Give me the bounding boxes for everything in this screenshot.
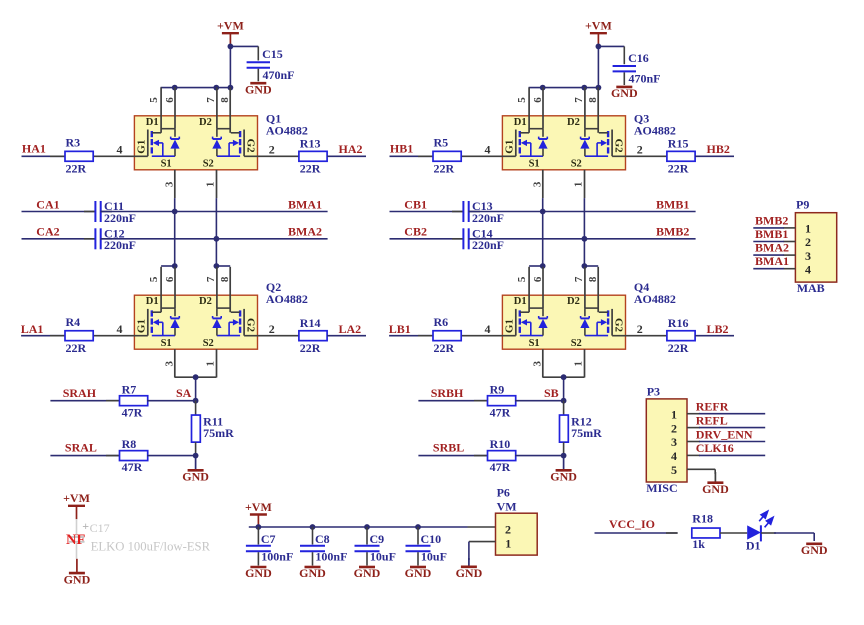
svg-text:10uF: 10uF	[370, 550, 396, 564]
wire to node SA	[147, 400, 196, 402]
transistor Q1 AO4882 dual MOSFET	[93, 87, 299, 198]
svg-text:2: 2	[269, 322, 275, 336]
svg-text:47R: 47R	[490, 460, 511, 474]
svg-text:SRAH: SRAH	[63, 386, 97, 400]
svg-text:GND: GND	[456, 566, 483, 580]
wire bus to P6 pin 2	[468, 526, 496, 528]
svg-text:47R: 47R	[122, 460, 143, 474]
svg-text:D2: D2	[567, 296, 580, 307]
svg-text:GND: GND	[245, 82, 272, 96]
svg-text:C16: C16	[628, 51, 649, 65]
svg-text:S1: S1	[161, 159, 172, 170]
svg-text:GND: GND	[801, 543, 828, 557]
junction tie 2	[214, 263, 220, 269]
svg-text:75mR: 75mR	[571, 426, 602, 440]
wire to LB2	[695, 335, 734, 337]
svg-text:GND: GND	[299, 566, 326, 580]
svg-text:2: 2	[637, 142, 643, 156]
svg-text:LB1: LB1	[389, 322, 411, 336]
svg-text:CLK16: CLK16	[696, 441, 734, 455]
wire R18 to D1	[720, 532, 747, 534]
svg-text:+VM: +VM	[585, 19, 612, 33]
svg-text:1: 1	[205, 361, 217, 367]
svg-text:REFR: REFR	[696, 400, 729, 414]
svg-text:5: 5	[148, 97, 160, 103]
resistor R10 47R	[474, 437, 516, 474]
junction drain bus 3	[228, 85, 234, 91]
wire source join	[175, 377, 217, 401]
svg-text:+VM: +VM	[217, 19, 244, 33]
svg-text:HA2: HA2	[339, 142, 363, 156]
wire BMA2 row	[101, 238, 328, 240]
svg-text:R8: R8	[122, 437, 137, 451]
junction tie 1	[540, 263, 546, 269]
svg-text:5: 5	[516, 97, 528, 103]
wire SRBL	[418, 455, 488, 457]
svg-text:MAB: MAB	[797, 281, 825, 295]
svg-text:G1: G1	[136, 140, 148, 154]
ground below C10	[405, 566, 432, 580]
power +VM (C17 branch)	[63, 491, 90, 519]
wire to HB2	[695, 155, 734, 157]
wire S1 output column	[542, 198, 544, 266]
svg-text:22R: 22R	[66, 341, 87, 355]
svg-text:C7: C7	[261, 532, 276, 546]
svg-text:G2: G2	[245, 139, 257, 154]
wire P3 pin 1 net REFR	[687, 413, 765, 415]
transistor Q2 AO4882 dual MOSFET	[93, 267, 299, 378]
svg-text:C15: C15	[262, 47, 283, 61]
junction node SA	[193, 398, 199, 404]
wire CA2 row	[22, 238, 96, 240]
svg-text:S2: S2	[571, 159, 582, 170]
svg-text:REFL: REFL	[696, 413, 728, 427]
svg-text:7: 7	[205, 97, 217, 103]
svg-text:R4: R4	[66, 315, 81, 329]
capacitor C8 100nF	[300, 527, 347, 566]
junction drain bus	[540, 85, 546, 91]
wire P6 pin 1 to ground	[469, 542, 496, 560]
svg-text:LA2: LA2	[339, 322, 362, 336]
wire S1 output column	[174, 198, 176, 266]
svg-text:220nF: 220nF	[104, 238, 136, 252]
svg-text:2: 2	[637, 322, 643, 336]
svg-text:100nF: 100nF	[261, 550, 293, 564]
svg-text:P3: P3	[647, 384, 660, 398]
capacitor C15 470nF	[247, 46, 295, 82]
svg-text:SB: SB	[544, 386, 559, 400]
junction ground node	[561, 453, 567, 459]
svg-text:4: 4	[485, 142, 491, 156]
wire SRAL	[50, 455, 120, 457]
wire P3 pin 4 net CLK16	[687, 454, 765, 456]
svg-text:8: 8	[587, 97, 599, 103]
wire to ground node	[515, 455, 564, 457]
transistor Q3 AO4882 dual MOSFET	[461, 87, 667, 198]
svg-text:G2: G2	[245, 318, 257, 333]
ground below C16	[611, 86, 638, 100]
svg-text:1: 1	[505, 537, 511, 551]
svg-text:R5: R5	[434, 135, 449, 149]
svg-text:AO4882: AO4882	[634, 292, 676, 306]
wire to ground node	[147, 455, 196, 457]
wire P3 pin 2 net REFL	[687, 427, 765, 429]
wire S2 output column	[215, 198, 217, 266]
svg-text:470nF: 470nF	[629, 72, 661, 86]
svg-text:47R: 47R	[122, 405, 143, 419]
svg-text:1: 1	[573, 182, 585, 188]
svg-text:1: 1	[205, 182, 217, 188]
connector P9 MAB	[795, 198, 836, 296]
junction bus tap C10	[415, 524, 421, 530]
capacitor C10 10uF	[406, 527, 447, 566]
svg-text:5: 5	[516, 276, 528, 282]
svg-text:8: 8	[219, 276, 231, 282]
svg-text:S2: S2	[203, 159, 214, 170]
svg-text:8: 8	[219, 97, 231, 103]
svg-text:HA1: HA1	[22, 142, 46, 156]
svg-text:D1: D1	[514, 117, 527, 128]
capacitor C17 ELKO 100uF/low-ESR (not fitted)	[69, 519, 211, 559]
capacitor C16 470nF	[613, 46, 661, 85]
junction S2-BMB2	[582, 236, 588, 242]
svg-text:BMA2: BMA2	[755, 241, 789, 255]
junction +VM node	[228, 44, 234, 50]
svg-text:+: +	[82, 519, 89, 533]
capacitor C13 220nF	[452, 199, 504, 225]
svg-text:S2: S2	[571, 338, 582, 349]
svg-text:HB1: HB1	[390, 142, 413, 156]
wire to HA2	[327, 155, 366, 157]
svg-text:5: 5	[671, 463, 677, 477]
svg-text:CB1: CB1	[404, 197, 427, 211]
svg-text:75mR: 75mR	[203, 426, 234, 440]
wire BMB2 row	[469, 238, 696, 240]
svg-text:SRBH: SRBH	[431, 386, 464, 400]
svg-text:22R: 22R	[668, 162, 689, 176]
ground after D1	[801, 543, 828, 557]
junction S1-BMA1	[172, 209, 178, 215]
wire CB1 row	[390, 211, 464, 213]
svg-text:S2: S2	[203, 338, 214, 349]
svg-text:CA1: CA1	[36, 197, 59, 211]
wire LA1	[21, 335, 65, 337]
ground below sense resistors	[182, 456, 209, 484]
svg-text:22R: 22R	[300, 162, 321, 176]
svg-text:22R: 22R	[434, 341, 455, 355]
svg-text:ELKO 100uF/low-ESR: ELKO 100uF/low-ESR	[91, 540, 211, 554]
junction bus tap C8	[310, 524, 316, 530]
svg-text:BMA2: BMA2	[288, 225, 322, 239]
svg-text:G1: G1	[136, 319, 148, 333]
resistor R13 22R	[299, 137, 327, 176]
wire +VM to cap C16	[598, 45, 624, 47]
wire source join	[543, 377, 585, 401]
svg-text:P6: P6	[497, 486, 510, 500]
resistor R7 47R	[106, 382, 148, 419]
resistor R16 22R	[667, 316, 695, 355]
svg-text:S1: S1	[529, 338, 540, 349]
svg-text:SRAL: SRAL	[65, 441, 97, 455]
svg-text:GND: GND	[64, 572, 91, 586]
svg-text:AO4882: AO4882	[634, 124, 676, 138]
resistor R3 22R	[50, 135, 93, 175]
ground below C17	[64, 559, 91, 587]
ground P3	[702, 472, 729, 496]
resistor R9 47R	[474, 382, 516, 419]
svg-text:HB2: HB2	[707, 142, 730, 156]
svg-text:SRBL: SRBL	[433, 441, 464, 455]
svg-text:G2: G2	[613, 318, 625, 333]
svg-text:BMB1: BMB1	[656, 197, 689, 211]
svg-text:+VM: +VM	[245, 500, 272, 514]
junction drain bus 2	[581, 85, 587, 91]
wire +VM to cap C15	[230, 45, 258, 47]
svg-text:C9: C9	[370, 532, 385, 546]
svg-text:BMA1: BMA1	[288, 197, 322, 211]
resistor R5 22R	[418, 135, 461, 175]
wire HA1	[22, 155, 66, 157]
svg-text:GND: GND	[611, 86, 638, 100]
svg-text:R7: R7	[122, 382, 137, 396]
svg-text:GND: GND	[405, 566, 432, 580]
svg-text:1k: 1k	[692, 537, 705, 551]
capacitor C12 220nF	[84, 227, 136, 253]
wire SRAH	[50, 400, 120, 402]
svg-text:NF: NF	[66, 532, 85, 548]
svg-text:VCC_IO: VCC_IO	[609, 517, 655, 531]
capacitor C9 10uF	[355, 527, 396, 566]
junction drain bus	[172, 85, 178, 91]
svg-text:6: 6	[532, 97, 544, 103]
svg-text:R16: R16	[668, 316, 689, 330]
junction tie 2	[582, 263, 588, 269]
ground P6	[456, 558, 483, 580]
resistor R15 22R	[667, 137, 695, 176]
ground below C7	[245, 566, 272, 580]
wire P9 pin 3 net BMA2	[753, 254, 795, 256]
svg-text:4: 4	[805, 262, 811, 276]
capacitor C11 220nF	[84, 199, 136, 225]
svg-text:3: 3	[532, 181, 544, 187]
connector P6 VM	[496, 486, 538, 556]
svg-text:MISC: MISC	[646, 481, 677, 495]
junction drain bus 2	[213, 85, 219, 91]
svg-text:4: 4	[485, 322, 491, 336]
svg-text:GND: GND	[182, 470, 209, 484]
power +VM (right top)	[585, 19, 612, 47]
svg-text:2: 2	[805, 235, 811, 249]
resistor R11 75mR	[192, 401, 235, 456]
wire CA1 row	[22, 211, 96, 213]
power +VM (bulk cap bus)	[245, 500, 272, 527]
resistor R4 22R	[50, 315, 93, 355]
svg-text:22R: 22R	[300, 341, 321, 355]
svg-text:2: 2	[269, 142, 275, 156]
junction node SB	[561, 398, 567, 404]
svg-text:S1: S1	[529, 159, 540, 170]
svg-text:AO4882: AO4882	[266, 124, 308, 138]
svg-text:LA1: LA1	[21, 322, 44, 336]
svg-text:D2: D2	[567, 117, 580, 128]
wire D1 to ground	[761, 533, 814, 541]
svg-text:D1: D1	[514, 296, 527, 307]
svg-text:R15: R15	[668, 137, 689, 151]
svg-text:6: 6	[164, 97, 176, 103]
svg-text:BMA1: BMA1	[755, 254, 789, 268]
svg-text:2: 2	[505, 522, 511, 536]
svg-text:R10: R10	[490, 437, 511, 451]
svg-text:+VM: +VM	[63, 491, 90, 505]
resistor R8 47R	[106, 437, 148, 474]
svg-text:220nF: 220nF	[472, 211, 504, 225]
wire CB2 row	[390, 238, 464, 240]
wire +VM down to drain bus	[529, 46, 599, 87]
svg-text:R9: R9	[490, 382, 505, 396]
wire VCC_IO	[595, 532, 678, 534]
svg-text:5: 5	[148, 276, 160, 282]
junction source join	[561, 374, 567, 380]
svg-text:100nF: 100nF	[315, 550, 347, 564]
wire BMB1 row	[469, 211, 696, 213]
svg-text:6: 6	[532, 276, 544, 282]
wire S2 output column	[583, 198, 585, 266]
svg-text:1: 1	[805, 222, 811, 236]
svg-text:470nF: 470nF	[263, 68, 295, 82]
wire P9 pin 4 net BMA1	[753, 268, 795, 270]
connector P3 MISC	[646, 384, 687, 495]
svg-text:3: 3	[164, 361, 176, 367]
wire HB1	[390, 155, 434, 157]
svg-text:R6: R6	[434, 315, 449, 329]
svg-text:BMB2: BMB2	[656, 225, 689, 239]
capacitor C7 100nF	[246, 527, 293, 566]
capacitor C14 220nF	[452, 227, 504, 253]
svg-text:6: 6	[164, 276, 176, 282]
svg-text:D1: D1	[146, 296, 159, 307]
svg-text:C17: C17	[90, 521, 110, 535]
svg-text:S1: S1	[161, 338, 172, 349]
wire tie D1 pins of lower block	[161, 265, 175, 267]
ground below C15	[245, 82, 272, 96]
svg-text:BMB2: BMB2	[755, 213, 788, 227]
svg-text:22R: 22R	[668, 341, 689, 355]
svg-text:G2: G2	[613, 139, 625, 154]
designator Q3	[634, 112, 676, 138]
svg-text:D2: D2	[199, 117, 212, 128]
junction +VM node	[596, 44, 602, 50]
svg-text:LB2: LB2	[707, 322, 729, 336]
svg-text:C10: C10	[421, 532, 442, 546]
wire P9 pin 1 net BMB2	[753, 227, 795, 229]
svg-text:GND: GND	[245, 566, 272, 580]
wire +VM down to drain bus	[161, 46, 231, 87]
power +VM (left top)	[217, 19, 244, 47]
wire tie D1 pins of lower block	[529, 265, 543, 267]
svg-text:220nF: 220nF	[472, 238, 504, 252]
svg-text:D1: D1	[746, 539, 761, 553]
wire P3 pin 3 net DRV_ENN	[687, 441, 765, 443]
wire LB1	[389, 335, 433, 337]
designator Q1	[266, 112, 308, 138]
svg-text:GND: GND	[354, 566, 381, 580]
wire to node SB	[515, 400, 564, 402]
svg-text:D2: D2	[199, 296, 212, 307]
wire P3 pin 5 to ground	[687, 469, 715, 474]
svg-text:R14: R14	[300, 316, 321, 330]
svg-text:3: 3	[532, 361, 544, 367]
svg-text:R3: R3	[66, 135, 81, 149]
wire SRBH	[418, 400, 488, 402]
svg-text:CB2: CB2	[404, 225, 427, 239]
wire P9 pin 2 net BMB1	[753, 241, 795, 243]
svg-text:DRV_ENN: DRV_ENN	[696, 427, 753, 441]
wire tie D2 pins of lower block	[216, 265, 230, 267]
designator Q4	[634, 280, 676, 306]
svg-text:47R: 47R	[490, 405, 511, 419]
svg-text:VM: VM	[497, 499, 517, 513]
svg-text:BMB1: BMB1	[755, 227, 788, 241]
svg-text:4: 4	[117, 142, 123, 156]
resistor R12 75mR	[560, 401, 603, 456]
svg-text:3: 3	[164, 181, 176, 187]
svg-text:GND: GND	[702, 482, 729, 496]
junction bus tap C7	[256, 524, 262, 530]
designator Q2	[266, 280, 308, 306]
junction drain bus 3	[596, 85, 602, 91]
svg-text:4: 4	[671, 449, 677, 463]
svg-text:1: 1	[671, 407, 677, 421]
svg-text:7: 7	[573, 97, 585, 103]
svg-text:7: 7	[205, 276, 217, 282]
ground below C8	[299, 566, 326, 580]
junction S2-BMA2	[214, 236, 220, 242]
svg-text:10uF: 10uF	[421, 550, 447, 564]
svg-text:8: 8	[587, 276, 599, 282]
wire BMA1 row	[101, 211, 328, 213]
wire tie D2 pins of lower block	[584, 265, 598, 267]
transistor Q4 AO4882 dual MOSFET	[461, 267, 667, 378]
svg-text:22R: 22R	[434, 161, 455, 175]
svg-text:CA2: CA2	[36, 225, 59, 239]
svg-text:3: 3	[671, 435, 677, 449]
ground below sense resistors	[550, 456, 577, 484]
junction tie 1	[172, 263, 178, 269]
junction bus tap C9	[364, 524, 370, 530]
svg-text:C8: C8	[315, 532, 330, 546]
resistor R18 1k	[666, 512, 720, 552]
svg-text:P9: P9	[796, 198, 809, 212]
svg-text:G1: G1	[504, 140, 516, 154]
svg-text:220nF: 220nF	[104, 211, 136, 225]
junction source join	[193, 374, 199, 380]
svg-text:1: 1	[573, 361, 585, 367]
svg-text:SA: SA	[176, 386, 192, 400]
svg-text:7: 7	[573, 276, 585, 282]
resistor R14 22R	[299, 316, 327, 355]
svg-text:AO4882: AO4882	[266, 292, 308, 306]
junction ground node	[193, 453, 199, 459]
svg-text:3: 3	[805, 249, 811, 263]
svg-text:4: 4	[117, 322, 123, 336]
wire VM bus	[249, 526, 468, 528]
svg-text:D1: D1	[146, 117, 159, 128]
ground below C9	[354, 566, 381, 580]
svg-text:22R: 22R	[66, 161, 87, 175]
svg-text:G1: G1	[504, 319, 516, 333]
LED D1	[746, 511, 773, 553]
resistor R6 22R	[418, 315, 461, 355]
